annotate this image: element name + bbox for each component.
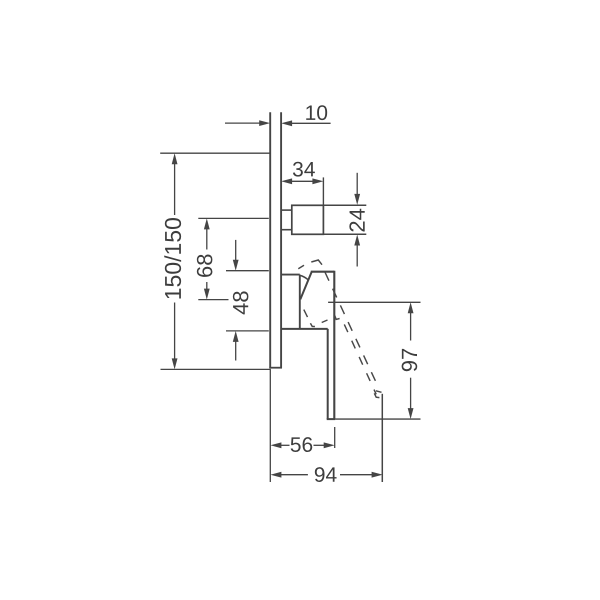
dashed swing arc hook f2	[310, 323, 315, 326]
label 48 (rotated)	[233, 291, 249, 314]
extension line 68 bottom	[198, 299, 228, 301]
knob top extension line	[323, 204, 366, 206]
body bottom edge	[281, 328, 328, 330]
arrow 24 top (pointing down)	[354, 194, 360, 205]
extension line 48 bottom	[226, 330, 269, 332]
wall plate bottom cap	[269, 367, 282, 369]
dashed arc top dash 2	[311, 260, 322, 265]
handle base top edge	[311, 271, 335, 273]
wall line left	[269, 112, 271, 367]
arrow 94 left (pointing left)	[270, 472, 281, 478]
arrow 56 left (pointing left)	[270, 442, 281, 448]
knob neck bottom	[281, 229, 292, 231]
arrow 48 top (pointing down, outside)	[233, 260, 239, 271]
dim line 24 top arrow shaft	[356, 173, 358, 195]
faucet neck top	[281, 274, 300, 276]
dashed arc top dash 1	[298, 265, 304, 268]
label 68 (rotated)	[197, 255, 213, 277]
dim line 48 top shaft	[235, 240, 237, 261]
handle base slant edge	[300, 272, 311, 300]
dimension texts	[164, 105, 417, 482]
extension line 150/150 bottom	[161, 368, 271, 370]
dim line 56 left	[280, 444, 290, 446]
arrow 68 top (pointing up)	[204, 218, 210, 229]
extension line for 34	[322, 177, 324, 205]
dim line 94 left	[281, 474, 308, 476]
handle right edge	[333, 271, 335, 419]
faucet body left vertical	[299, 275, 301, 329]
dashed swing arc dash f3	[322, 320, 328, 323]
knob neck top	[281, 209, 292, 211]
arrow 150/150 bottom (pointing down)	[172, 358, 178, 369]
label 94	[315, 467, 337, 482]
arrow 68 bottom (pointing down)	[204, 289, 210, 300]
arrow 24 bottom (pointing up)	[354, 235, 360, 246]
lever bottom cap	[327, 418, 336, 420]
dim line 94 right	[340, 474, 373, 476]
arrow 34 left (pointing left)	[281, 178, 292, 184]
extension line 97 top (pivot line)	[328, 301, 420, 303]
extension line 68 top (knob centerline)	[198, 217, 268, 219]
arrow 10 left (tip at wall-left, pointing right)	[259, 120, 270, 126]
knob bottom extension line	[323, 233, 366, 235]
handle base transition curve	[300, 275, 309, 280]
arrow 97 bottom (pointing down)	[408, 408, 414, 419]
dim line 97 lower	[410, 378, 412, 409]
dim line 56 right	[314, 444, 326, 446]
label 10	[306, 105, 327, 120]
dashed lever lower line	[344, 324, 376, 394]
label 56	[291, 437, 313, 452]
dashed lever (open position)	[298, 260, 381, 398]
dim line 150/150 lower	[174, 303, 176, 361]
label 150/150 (rotated)	[164, 218, 181, 298]
arrow 48 bottom (pointing up, outside)	[233, 331, 239, 342]
dim line 68 upper	[206, 228, 208, 250]
extension line 94 (dashed lever tip)	[381, 394, 383, 482]
arrow 56 right (pointing right)	[324, 442, 335, 448]
dim line 68 lower	[206, 282, 208, 291]
extension line 150/150 top	[160, 152, 270, 154]
dim line 10 left	[225, 122, 260, 124]
arrow 97 top (pointing up)	[408, 302, 414, 313]
lever left edge	[327, 329, 329, 419]
arrow 150/150 top (pointing up)	[172, 153, 178, 164]
extension line 48 top	[226, 270, 269, 272]
dashed lever start hook	[335, 315, 340, 319]
label 97 (rotated)	[402, 349, 418, 371]
dim line 48 bottom shaft	[235, 341, 237, 360]
dim line 24 bottom arrow shaft	[356, 244, 358, 267]
extension line 56	[334, 427, 336, 448]
dashed lever end cap	[376, 391, 382, 393]
dashed lever upper line	[325, 272, 376, 382]
extension line 97 bottom / lever bottom	[335, 418, 420, 420]
dim line 97 upper	[410, 313, 412, 341]
label 24 (rotated)	[349, 209, 364, 232]
label 34	[293, 162, 315, 177]
arrow 34 right (pointing right)	[312, 178, 323, 184]
dim line 10 right	[291, 122, 331, 124]
dim line 34	[290, 180, 314, 182]
dashed swing arc dash f1	[304, 310, 308, 318]
arrow 10 right (tip at wall-right, pointing left)	[281, 120, 292, 126]
arrowheads	[172, 120, 414, 477]
arrow 94 right (pointing right)	[372, 472, 383, 478]
extension line left below plate	[269, 369, 271, 482]
wall line right	[280, 112, 282, 367]
knob rectangle	[292, 205, 324, 234]
dim line 150/150 upper	[174, 163, 176, 216]
